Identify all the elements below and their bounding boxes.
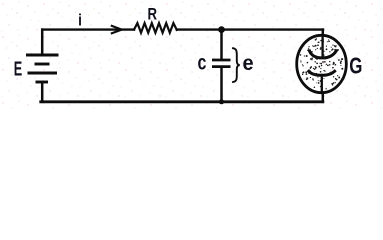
brace for e across capacitor — [233, 48, 240, 82]
svg-text:R: R — [148, 5, 158, 24]
wire: battery bottom lead — [41, 82, 44, 102]
galvanometer G body circle — [297, 35, 347, 92]
wire: galvanometer bottom lead — [322, 93, 325, 102]
label E (battery) — [14, 57, 22, 80]
capacitor c bottom plate — [212, 65, 231, 68]
wire: capacitor top lead — [220, 30, 223, 59]
wire: galvanometer top lead — [322, 30, 325, 36]
galvanometer stipple dots — [300, 38, 344, 89]
wire: top segment resistor to node — [177, 28, 222, 30]
junction node on bottom wire — [219, 99, 224, 104]
battery E plate 1 (long) — [26, 54, 59, 57]
svg-text:e: e — [242, 52, 253, 76]
wire: left vertical (battery top lead) — [41, 30, 44, 55]
battery E plate 4 (short) — [36, 81, 49, 84]
galvanometer internal top lead — [321, 35, 323, 56]
wire: capacitor bottom lead — [220, 68, 223, 102]
label R (resistor) — [148, 5, 158, 24]
label e (voltage) — [242, 52, 253, 76]
svg-text:i: i — [78, 11, 82, 30]
resistor R — [134, 23, 177, 33]
galvanometer upper electrode arc — [310, 51, 337, 58]
wire: top segment node to right corner — [222, 28, 324, 30]
galvanometer internal bottom lead — [321, 75, 323, 93]
label c (capacitor) — [198, 50, 207, 74]
galvanometer lower electrode arc — [309, 71, 335, 75]
battery E plate 3 (long) — [28, 72, 58, 75]
svg-text:G: G — [349, 53, 362, 79]
battery E plate 2 (short) — [35, 63, 50, 66]
label i (current) — [78, 11, 82, 30]
svg-text:E: E — [14, 57, 22, 80]
wire: top left segment from battery corner to resistor — [42, 28, 134, 30]
junction node on top wire — [218, 26, 225, 33]
svg-text:c: c — [198, 50, 207, 74]
label G (galvanometer) — [349, 53, 362, 79]
capacitor c top plate — [212, 59, 231, 62]
wire: bottom rail — [41, 100, 323, 103]
current arrow on top wire — [112, 26, 122, 33]
